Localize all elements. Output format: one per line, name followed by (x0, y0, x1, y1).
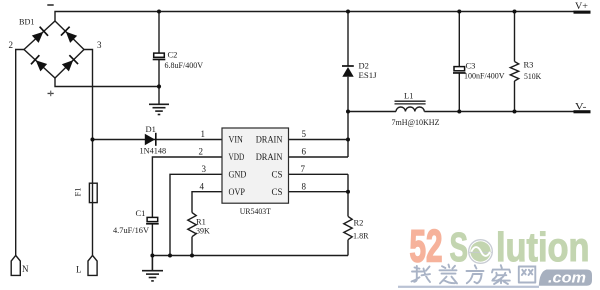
node: D2 top on V+ rail (346, 10, 350, 14)
fuse F1 (73, 183, 98, 202)
char an (492, 265, 510, 284)
node: D1 tap on L line (90, 137, 94, 141)
svg-text:100nF/400V: 100nF/400V (464, 71, 505, 81)
svg-text:VIN: VIN (229, 134, 244, 144)
svg-text:CS: CS (271, 170, 282, 180)
wire: R2 branch and CS pins 7,8 (289, 174, 349, 255)
svg-text:N: N (22, 264, 29, 274)
diode BD1 bottom-left arm (31, 55, 48, 72)
bridge rectifier BD1 (9, 4, 103, 96)
svg-text:CS: CS (271, 187, 282, 197)
svg-text:D1: D1 (146, 124, 156, 134)
resistor R3 (510, 60, 542, 82)
svg-text:F1: F1 (73, 188, 83, 197)
node: R3 bottom on V- rail (513, 110, 517, 114)
wire: IC pin 4 OVP to R1 (192, 192, 222, 256)
capacitor C2 (153, 50, 204, 71)
svg-text:1: 1 (201, 129, 206, 139)
node: R1 bottom on ground rail (190, 254, 194, 258)
node: pin8 on CS vertical (346, 190, 350, 194)
svg-text:6.8uF/400V: 6.8uF/400V (165, 60, 204, 70)
svg-text:R2: R2 (354, 218, 364, 228)
svg-text:V+: V+ (575, 1, 588, 11)
terminal V+ (574, 1, 591, 14)
node: pin5 on drain vertical (346, 138, 350, 142)
node: C2 top on V+ rail (157, 10, 161, 14)
wire: D1 row from L line to IC pin 1 (93, 139, 223, 141)
svg-text:D2: D2 (359, 61, 369, 71)
svg-text:1.8R: 1.8R (353, 231, 369, 241)
resistor R2 (344, 216, 369, 240)
wire: drain vertical with D2, pins 5,6 (289, 12, 349, 158)
wire: bridge right vertex down to L terminal (84, 50, 93, 256)
node: C3 bottom on V- rail (457, 110, 461, 114)
svg-text:C2: C2 (168, 50, 178, 60)
diode BD1 top-right arm (61, 27, 78, 44)
terminal N (11, 255, 29, 275)
inductor L1 (392, 91, 440, 128)
capacitor C1 (113, 208, 159, 235)
wire: bottom ground rail (152, 255, 348, 257)
node: R3 top on V+ rail (513, 10, 517, 14)
diode BD1 top-left arm (31, 27, 48, 44)
bridge plus mark (48, 93, 54, 94)
watermark underline bar (398, 286, 539, 288)
ground (bottom, under C1 rail) (142, 256, 163, 281)
resistor R1 (188, 213, 211, 237)
svg-text:lution: lution (496, 224, 590, 270)
wire: top V+ rail from bridge top (55, 12, 574, 22)
svg-text:S: S (450, 224, 469, 270)
wire: C2 branch from top rail to ground (158, 12, 160, 105)
wire: lower V- rail right of L1 (424, 111, 574, 113)
svg-text:UR5403T: UR5403T (240, 206, 272, 216)
node: pin3 on ground rail (168, 254, 172, 258)
char wang (519, 267, 536, 283)
svg-text:7: 7 (301, 164, 306, 174)
watermark chinese characters 我爱方案网 (412, 265, 536, 284)
bridge minus mark (47, 4, 53, 6)
node: C3 top on V+ rail (457, 10, 461, 14)
capacitor C3 (453, 61, 505, 81)
diode D2 (342, 61, 377, 81)
svg-text:C1: C1 (136, 208, 146, 218)
svg-text:1N4148: 1N4148 (140, 146, 167, 156)
watermark .com badge (539, 270, 592, 286)
svg-text:V-: V- (575, 102, 587, 112)
ground (under C2) (149, 104, 169, 114)
svg-text:ES1J: ES1J (359, 70, 378, 80)
diode D1 (140, 124, 167, 156)
terminal V- (574, 102, 591, 114)
svg-text:4.7uF/16V: 4.7uF/16V (113, 225, 150, 235)
wire: IC pin 2 to C1 to bottom rail (152, 157, 222, 256)
wire: C3 branch (458, 12, 460, 112)
svg-text:510K: 510K (524, 71, 542, 81)
svg-text:DRAIN: DRAIN (256, 134, 283, 144)
svg-text:L1: L1 (404, 91, 413, 101)
svg-text:7mH@10KHZ: 7mH@10KHZ (392, 117, 440, 127)
svg-text:.com: .com (548, 270, 586, 287)
svg-text:OVP: OVP (229, 187, 246, 197)
svg-text:3: 3 (97, 40, 102, 50)
watermark logo 52Solution (410, 221, 593, 287)
svg-text:52: 52 (410, 221, 443, 272)
svg-text:L: L (76, 265, 82, 275)
svg-text:R3: R3 (524, 60, 534, 70)
node: drain to V- rail (346, 110, 350, 114)
node: bridge plus to C2 bottom (157, 84, 161, 88)
char ai (440, 265, 458, 284)
char wo (412, 266, 431, 282)
svg-text:DRAIN: DRAIN (256, 152, 283, 162)
svg-text:GND: GND (229, 170, 247, 180)
svg-text:3: 3 (202, 164, 207, 174)
svg-text:2: 2 (199, 147, 204, 157)
diode BD1 bottom-right arm (61, 55, 78, 72)
svg-text:BD1: BD1 (19, 17, 35, 27)
svg-text:VDD: VDD (229, 152, 245, 162)
svg-text:C3: C3 (466, 61, 476, 71)
svg-text:39K: 39K (196, 226, 211, 236)
svg-text:6: 6 (302, 147, 307, 157)
wire: R3 branch (514, 12, 516, 112)
char fang (467, 265, 484, 283)
node: C1 bottom / ground rail (150, 254, 154, 258)
terminal L (76, 255, 97, 275)
wire: bridge left vertex to N terminal (16, 50, 24, 256)
wire: IC pin 3 GND down to bottom rail (170, 174, 222, 255)
svg-text:4: 4 (200, 181, 205, 191)
wire: lower V- rail left of L1 (348, 111, 396, 113)
svg-text:2: 2 (9, 40, 14, 50)
wire: bridge bottom output to C2 bottom (55, 78, 159, 87)
op-amp U1 UR5403T body (222, 128, 289, 216)
svg-text:5: 5 (302, 129, 307, 139)
svg-text:8: 8 (302, 181, 307, 191)
